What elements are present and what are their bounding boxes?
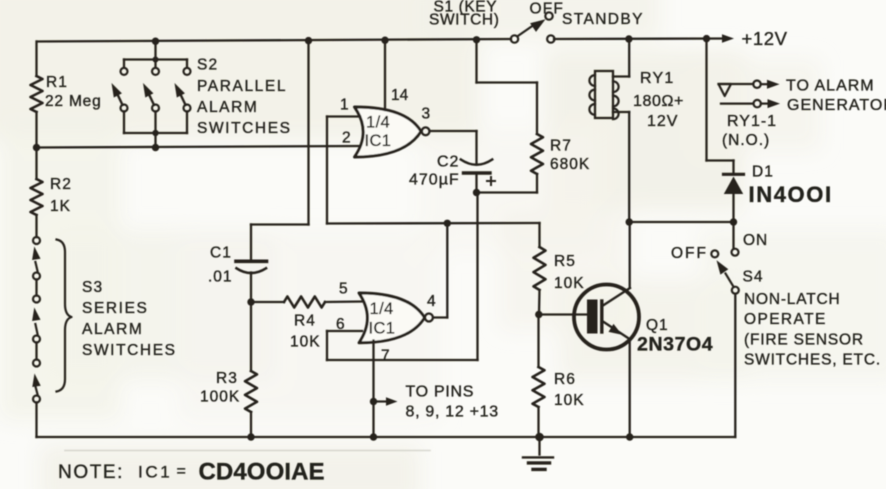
svg-text:S3: S3 bbox=[82, 279, 103, 296]
svg-text:S2: S2 bbox=[197, 57, 218, 74]
svg-text:3: 3 bbox=[422, 106, 431, 123]
svg-text:TO ALARM: TO ALARM bbox=[786, 78, 875, 95]
svg-text:C2: C2 bbox=[437, 154, 459, 171]
svg-text:TO PINS: TO PINS bbox=[406, 384, 475, 401]
svg-text:SWITCH): SWITCH) bbox=[429, 12, 500, 29]
svg-text:100K: 100K bbox=[200, 389, 240, 406]
svg-text:180Ω+: 180Ω+ bbox=[633, 93, 684, 110]
svg-text:OFF: OFF bbox=[530, 1, 565, 18]
svg-text:1/4: 1/4 bbox=[370, 300, 394, 318]
svg-text:ON: ON bbox=[743, 232, 768, 249]
svg-text:IC1: IC1 bbox=[365, 132, 392, 150]
svg-text:1/4: 1/4 bbox=[366, 114, 390, 132]
svg-text:10K: 10K bbox=[554, 275, 585, 292]
svg-text:R7: R7 bbox=[550, 138, 572, 155]
svg-text:(N.O.): (N.O.) bbox=[722, 132, 770, 149]
svg-text:.01: .01 bbox=[208, 269, 233, 286]
svg-text:PARALLEL: PARALLEL bbox=[197, 78, 287, 95]
svg-text:1: 1 bbox=[340, 97, 349, 114]
svg-text:2: 2 bbox=[342, 130, 351, 147]
svg-text:IC1: IC1 bbox=[138, 463, 172, 482]
svg-text:R5: R5 bbox=[554, 253, 576, 270]
svg-text:SWITCHES, ETC.: SWITCHES, ETC. bbox=[744, 352, 881, 369]
svg-text:NOTE:: NOTE: bbox=[58, 462, 124, 483]
svg-text:R6: R6 bbox=[554, 371, 576, 388]
svg-text:R3: R3 bbox=[216, 370, 238, 387]
svg-text:22 Meg: 22 Meg bbox=[45, 93, 102, 110]
svg-text:R1: R1 bbox=[46, 74, 68, 91]
svg-text:10K: 10K bbox=[554, 392, 585, 409]
svg-text:R4: R4 bbox=[294, 313, 316, 330]
svg-text:14: 14 bbox=[391, 87, 409, 104]
svg-text:S4: S4 bbox=[743, 269, 764, 286]
svg-text:RY1: RY1 bbox=[640, 70, 674, 87]
svg-text:7: 7 bbox=[381, 348, 390, 365]
svg-text:SWITCHES: SWITCHES bbox=[82, 342, 177, 359]
svg-text:SWITCHES: SWITCHES bbox=[197, 120, 292, 137]
svg-text:+12V: +12V bbox=[742, 28, 788, 49]
svg-text:D1: D1 bbox=[752, 164, 774, 181]
svg-text:GENERATOR: GENERATOR bbox=[787, 97, 886, 114]
svg-text:CD4OOIAE: CD4OOIAE bbox=[199, 459, 325, 486]
svg-text:10K: 10K bbox=[290, 334, 321, 351]
svg-text:STANDBY: STANDBY bbox=[562, 11, 644, 28]
svg-text:680K: 680K bbox=[550, 156, 590, 173]
svg-text:1K: 1K bbox=[50, 198, 71, 215]
svg-text:ALARM: ALARM bbox=[197, 99, 258, 116]
svg-text:12V: 12V bbox=[647, 113, 678, 130]
svg-text:2N37O4: 2N37O4 bbox=[637, 334, 713, 356]
svg-text:R2: R2 bbox=[50, 176, 72, 193]
svg-text:C1: C1 bbox=[210, 245, 232, 262]
svg-text:SERIES: SERIES bbox=[82, 300, 148, 317]
svg-text:(FIRE SENSOR: (FIRE SENSOR bbox=[744, 332, 864, 349]
svg-text:4: 4 bbox=[427, 293, 436, 310]
svg-text:Q1: Q1 bbox=[646, 317, 669, 334]
svg-text:IC1: IC1 bbox=[369, 320, 396, 338]
svg-text:OFF: OFF bbox=[671, 245, 708, 262]
svg-text:5: 5 bbox=[339, 281, 348, 298]
svg-text:NON-LATCH: NON-LATCH bbox=[744, 291, 840, 308]
svg-text:470µF: 470µF bbox=[409, 172, 460, 189]
svg-text:OPERATE: OPERATE bbox=[744, 311, 827, 328]
svg-text:ALARM: ALARM bbox=[82, 321, 143, 338]
svg-text:6: 6 bbox=[336, 316, 345, 333]
svg-text:IN4OOI: IN4OOI bbox=[749, 182, 833, 207]
svg-text:=: = bbox=[177, 463, 186, 480]
svg-text:RY1-1: RY1-1 bbox=[727, 113, 777, 130]
svg-text:8, 9, 12 +13: 8, 9, 12 +13 bbox=[406, 404, 499, 421]
